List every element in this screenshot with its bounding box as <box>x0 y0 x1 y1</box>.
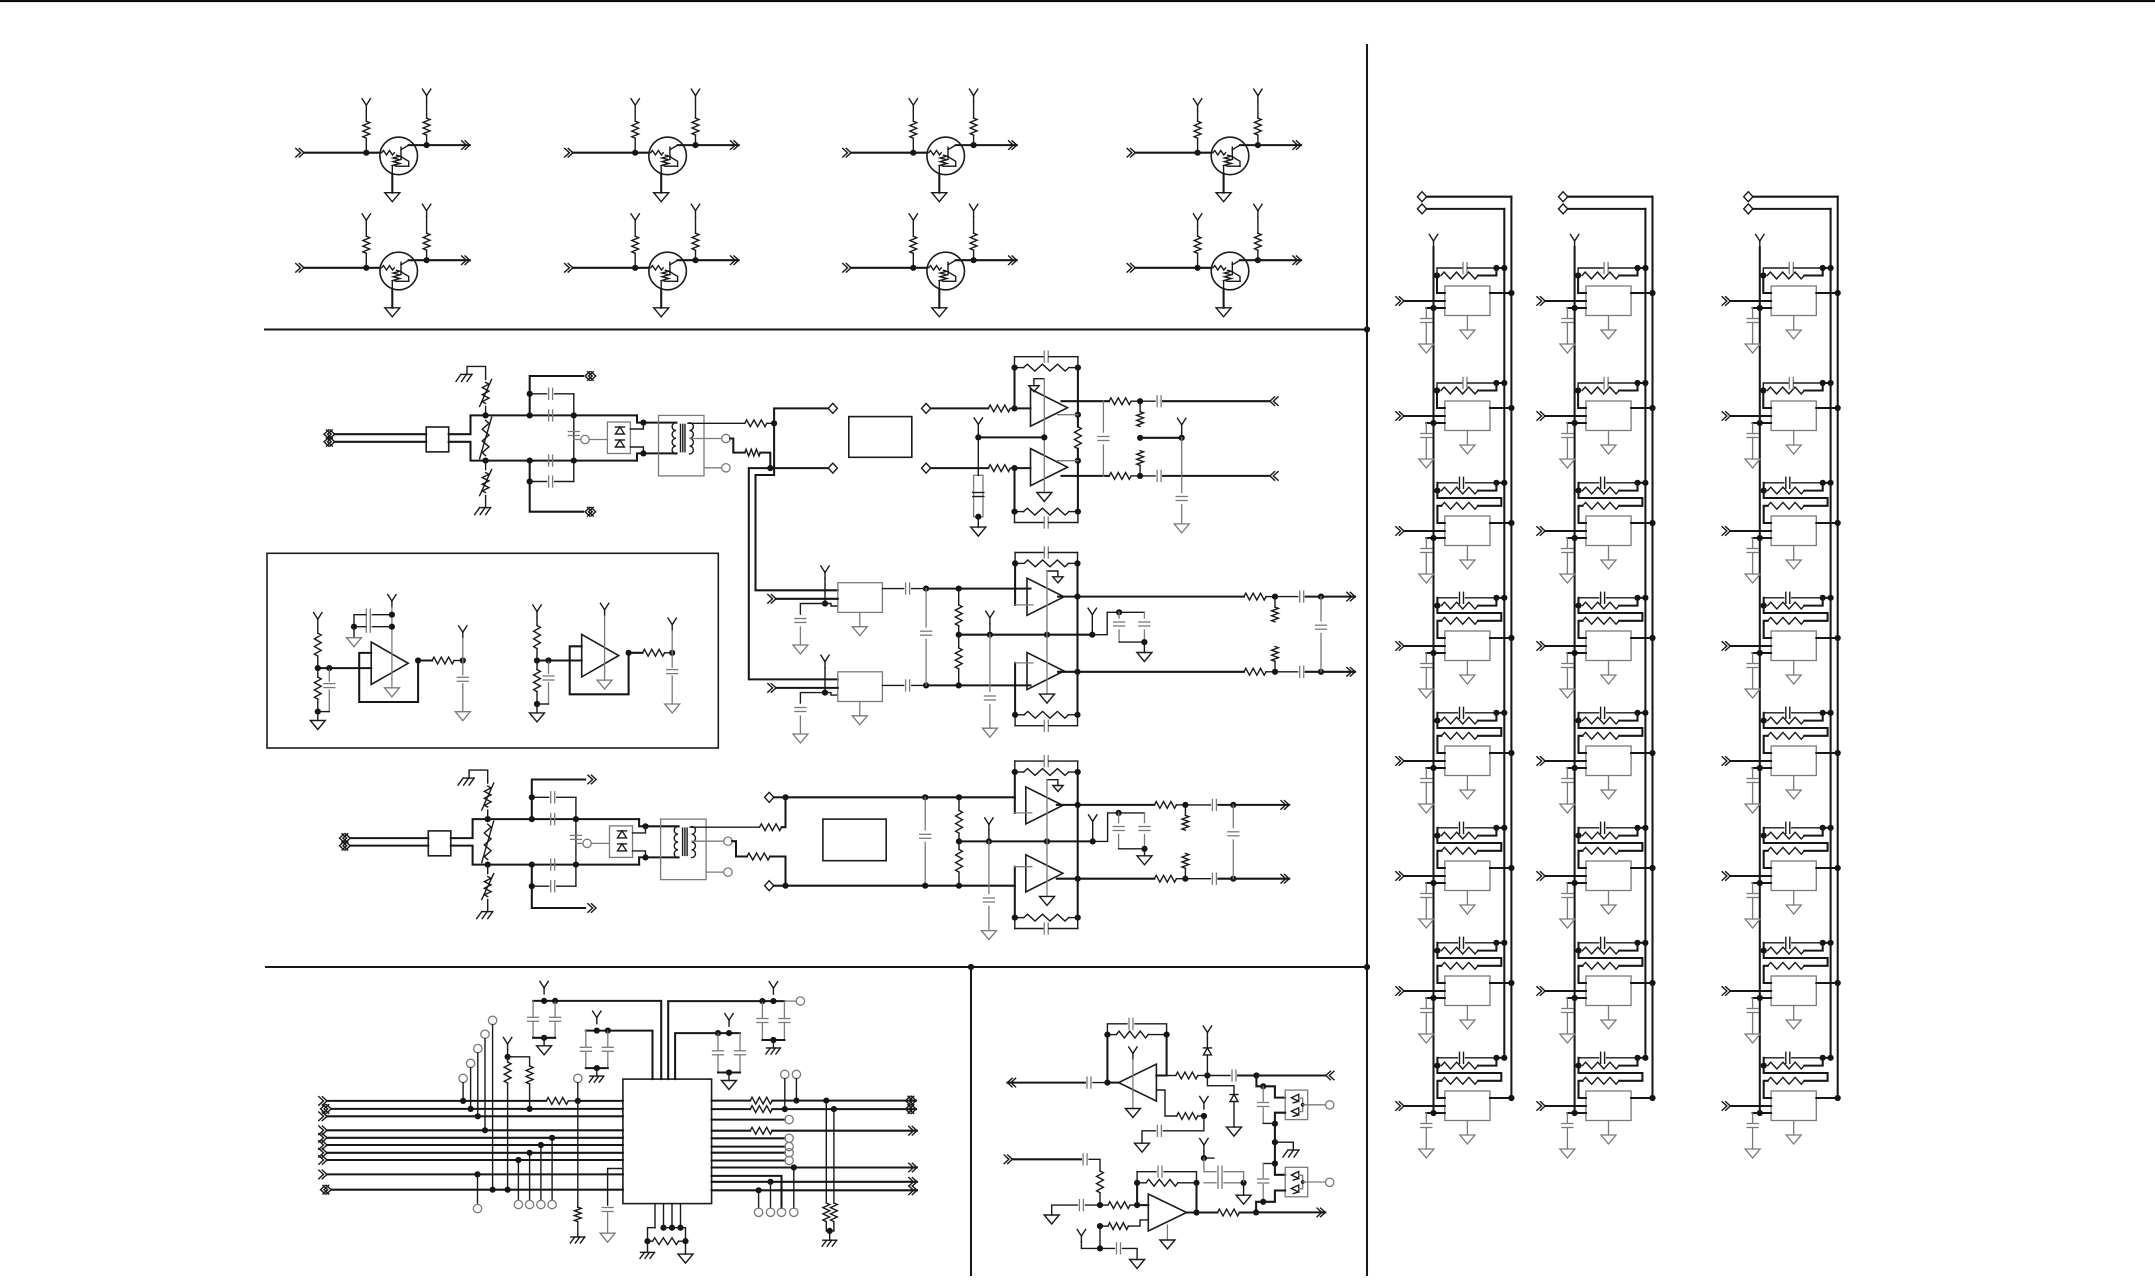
input arrow net L3 <box>322 1112 327 1121</box>
junction fb left U33 <box>1761 488 1767 494</box>
junction output U34 <box>1835 635 1841 641</box>
wire output U24 <box>1631 637 1652 639</box>
ground VD4 <box>766 1047 780 1049</box>
junction b3 capnet <box>1090 838 1096 844</box>
diamond b1 in2 A <box>828 463 837 473</box>
wire fb left U38 <box>1763 1058 1765 1066</box>
input arrow net L6 <box>322 1141 327 1150</box>
junction REF2 outR <box>669 650 675 656</box>
op-amp B3.2 <box>1026 855 1063 892</box>
terminal circle top 3 <box>474 1044 482 1052</box>
wire fb to pin U28 <box>1579 1081 1586 1098</box>
resistor feedback2 U18 <box>1441 1077 1478 1084</box>
wire opto gnd <box>1275 1142 1293 1150</box>
wire box gnd U21 <box>1608 316 1610 331</box>
capacitor opto2 <box>1262 1164 1264 1178</box>
ground cap U32 <box>1745 459 1760 468</box>
junction railA T2 <box>529 816 535 822</box>
wire fb-top left B2 <box>1014 563 1016 605</box>
wire out arrow1 B1 <box>1163 400 1270 402</box>
capacitor b3 inter-out <box>1232 805 1234 828</box>
input arrow U11 <box>1399 297 1404 306</box>
resistor OPB noninv <box>1108 1223 1128 1230</box>
wire feedback U12 <box>1437 391 1445 409</box>
resistor sec top T1 <box>745 420 767 427</box>
wire collector Q5 <box>409 259 427 261</box>
wire box gnd U22 <box>1608 431 1610 446</box>
junction fb bus U15 <box>1501 710 1507 716</box>
wire input Q6 <box>573 267 649 269</box>
junction fb-bot r B2 <box>1074 712 1080 718</box>
wire b3 cn join <box>1119 848 1145 850</box>
wire fb loop U14 <box>1437 606 1501 621</box>
capacitor b2 cn2 <box>1143 612 1145 618</box>
terminal circle sec1 T2 <box>692 840 724 842</box>
junction b3 div <box>956 838 962 844</box>
junction R1b <box>823 1098 829 1104</box>
ground Q3 <box>932 193 947 202</box>
driver U13 <box>1445 516 1490 546</box>
out arrow OPA <box>1007 1078 1012 1087</box>
ground opto chassis <box>1288 1149 1299 1151</box>
capacitor OPA fb <box>1107 1024 1127 1035</box>
junction OPA fb l <box>1104 1032 1110 1038</box>
junction output U13 <box>1508 520 1514 526</box>
wire diamond top T2 <box>774 796 786 798</box>
driver U16 <box>1445 861 1490 891</box>
junction fb cap U38 <box>1820 1055 1826 1061</box>
wire feedback join U12 <box>1478 383 1504 391</box>
wire drop top 3 <box>477 1053 479 1117</box>
ground b2 cap2 <box>793 734 808 743</box>
ground cap U35 <box>1745 804 1760 813</box>
wire drop bottom 4 <box>551 1138 553 1201</box>
resistor feedback1 U38 <box>1768 1062 1805 1069</box>
junction pullup A <box>505 1187 511 1193</box>
junction base Q3 <box>910 150 916 156</box>
wire branch bottom T1 <box>530 461 583 512</box>
output arrow Q5 <box>465 256 470 265</box>
resistor feedback1 U15 <box>1441 717 1478 724</box>
junction output U35 <box>1835 750 1841 756</box>
wire drop bottom 2 <box>529 1153 531 1201</box>
wire net L1 <box>327 1100 546 1102</box>
zener OPA up <box>1206 1055 1208 1076</box>
junction outA1 B2 <box>1272 594 1278 600</box>
ground cap U36 <box>1745 919 1760 928</box>
wire R10 <box>712 1176 782 1208</box>
ground cap U25 <box>1560 804 1575 813</box>
chassis ground bottom T1 <box>480 507 491 509</box>
wire lower pin U18 <box>1426 1112 1445 1114</box>
wire fb loop U24 <box>1579 606 1643 621</box>
wire fb to pin U13 <box>1437 506 1444 523</box>
capacitor feedback U37 <box>1764 942 1784 944</box>
junction OPA right <box>1253 1072 1259 1078</box>
feedback loop REF1 <box>359 653 418 702</box>
ground L1 earth <box>571 1236 585 1238</box>
junction IC gnd b <box>682 1238 688 1244</box>
varistor mid T2 <box>484 824 491 860</box>
ground Q7 <box>932 308 947 317</box>
wire R11 <box>712 1181 917 1183</box>
wire diamond bottom T2 <box>774 885 786 887</box>
wire emitter Q1 <box>391 175 393 193</box>
wire out arrow2 B2 <box>1306 671 1355 673</box>
resistor feedback2 U33 <box>1768 502 1805 509</box>
capacitor b3 vref <box>988 841 990 893</box>
ground box U24 <box>1601 675 1616 684</box>
wire b2 to op1 <box>926 588 1030 590</box>
junction VD3 a <box>726 1030 732 1036</box>
transformer T2 <box>661 819 707 880</box>
capacitor feedback U18 <box>1437 1057 1457 1059</box>
junction IC gnd a <box>644 1238 650 1244</box>
capacitor B T1 <box>548 455 550 466</box>
wire box gnd U15 <box>1466 776 1468 791</box>
resistor L1 pulldown <box>577 1101 579 1207</box>
feedback OPA left <box>1106 1035 1108 1083</box>
resistor mid B1 <box>1075 427 1082 449</box>
wire output U35 <box>1816 752 1837 754</box>
capacitor feedback U33 <box>1764 482 1784 484</box>
wire out rail1 B2 <box>1078 596 1245 598</box>
ground dac filter <box>600 1233 615 1242</box>
junction fb cap U24 <box>1634 595 1640 601</box>
input arrow U28 <box>1540 1102 1545 1111</box>
wire fb r1 U17 <box>1478 943 1496 951</box>
resistor sec top T2 <box>760 824 782 831</box>
wire lower pin U36 <box>1753 882 1772 884</box>
wire cap1 B1 <box>1140 400 1155 402</box>
wire lower pin U25 <box>1567 767 1586 769</box>
resistor feedback1 U27 <box>1583 947 1620 954</box>
wire fb cap join U25 <box>1638 712 1646 714</box>
capacitor b3 cn1 <box>1118 813 1120 823</box>
junction bus-left U27 <box>1572 995 1578 1001</box>
wire REF2 to opamp <box>537 659 582 661</box>
wire pulldown Ra <box>825 1101 827 1203</box>
diamond b1 in1 A <box>828 403 837 413</box>
diamond top T2 <box>765 792 774 802</box>
ground box U27 <box>1601 1020 1616 1029</box>
wire fb loop U28 <box>1579 1066 1643 1081</box>
junction vtop T2 <box>485 816 491 822</box>
resistor REF1 div bottom <box>317 668 319 677</box>
input arrow U33 <box>1726 527 1731 536</box>
wire out rail1 B1 <box>1078 400 1109 402</box>
wire fb r1 U24 <box>1619 598 1637 606</box>
wire collector Q2 <box>678 144 696 146</box>
ground b2 cap1 <box>793 645 808 654</box>
power rail B2 <box>1046 571 1048 694</box>
wire input pair T1 <box>335 433 426 435</box>
capacitor feedback U25 <box>1579 712 1599 714</box>
wire output Q8 <box>1258 259 1301 261</box>
capacitor U11 <box>1425 308 1427 318</box>
wire output Q1 <box>427 144 470 146</box>
wire fb cap join U13 <box>1496 482 1504 484</box>
wire fb left U18 <box>1436 1058 1438 1066</box>
supply arrow b1 mid <box>977 424 979 430</box>
capacitor VD1 1 <box>532 1001 534 1017</box>
wire OPB out <box>1187 1211 1218 1213</box>
capacitor REF1 pwr1 <box>372 614 392 616</box>
capacitor OPA series <box>1207 1075 1230 1077</box>
supply arrow base Q5 <box>365 220 367 226</box>
resistor feedback1 U34 <box>1768 602 1805 609</box>
wire VD1 gnd <box>543 1038 545 1046</box>
driver U26 <box>1586 861 1631 891</box>
rail A T2 <box>488 818 639 820</box>
junction R12 <box>756 1187 762 1193</box>
junction output U36 <box>1835 865 1841 871</box>
wire fb left U25 <box>1577 713 1579 721</box>
capacitor U33 <box>1752 538 1754 548</box>
driver U24 <box>1586 631 1631 661</box>
supply arrow base Q2 <box>634 105 636 111</box>
junction feedback U22 <box>1575 387 1581 393</box>
wire input U36 <box>1730 875 1771 877</box>
output arrow Q8 <box>1296 256 1301 265</box>
wire b2 in2 <box>776 687 838 689</box>
wire VD2 to IC <box>609 1031 653 1080</box>
wire REF1 to opamp <box>318 667 371 669</box>
capacitor B2 T2 <box>532 885 549 887</box>
wire R1 <box>712 1100 751 1102</box>
capacitor b2 box1 <box>905 583 907 594</box>
junction bus-left U33 <box>1757 535 1763 541</box>
junction output U24 <box>1649 635 1655 641</box>
wire fb left U16 <box>1436 828 1438 836</box>
junction tvs top T2 <box>642 823 648 829</box>
supply arrow VD4 <box>772 988 774 994</box>
wire output U18 <box>1490 1097 1511 1099</box>
wire choke out T2 <box>451 819 488 838</box>
wire VD3 to IC <box>675 1033 717 1079</box>
wire feedback U22 <box>1578 391 1586 409</box>
ground cap U14 <box>1419 689 1434 698</box>
input arrow net L7 <box>322 1149 327 1158</box>
junction pulldown <box>827 1228 833 1234</box>
supply arrow REF2 pwr <box>604 610 606 616</box>
resistor feedback U22 <box>1582 387 1619 394</box>
supply arrow collector Q5 <box>426 211 428 217</box>
capacitor dac filter <box>602 1207 613 1209</box>
junction midA T2 <box>573 816 579 822</box>
capacitor out1 B2 <box>1299 591 1301 602</box>
junction b1 in2 <box>1011 465 1017 471</box>
capacitor mid T2 <box>570 834 581 836</box>
resistor feedback1 U36 <box>1768 832 1805 839</box>
wire lower pin U11 <box>1426 307 1445 309</box>
wire fb left U23 <box>1577 483 1579 491</box>
op-amp B1.1 <box>1031 389 1068 426</box>
junction bus-left U17 <box>1430 995 1436 1001</box>
ground cap U37 <box>1745 1034 1760 1043</box>
wire input U13 <box>1404 530 1445 532</box>
resistor base pull-up Q5 <box>365 253 367 267</box>
junction fb left U38 <box>1761 1063 1767 1069</box>
wire fb to pin U37 <box>1764 966 1771 983</box>
diamond b1 in1 B <box>922 403 931 413</box>
ground box U13 <box>1460 560 1475 569</box>
wire fb r1 U27 <box>1619 943 1637 951</box>
ground box U25 <box>1601 790 1616 799</box>
input arrow U14 <box>1399 642 1404 651</box>
resistor feedback1 U13 <box>1441 487 1478 494</box>
driver U18 <box>1445 1091 1490 1121</box>
ground flag B3 <box>1047 780 1058 786</box>
input arrow net L9 <box>322 1170 327 1179</box>
out arrow1 B1 <box>1270 397 1275 406</box>
junction VD1 j <box>541 1035 547 1041</box>
rail fb right B1 <box>1077 368 1079 427</box>
capacitor U31 <box>1752 308 1754 318</box>
junction output U28 <box>1649 1095 1655 1101</box>
wire lower pin U13 <box>1426 537 1445 539</box>
wire output U34 <box>1816 637 1837 639</box>
junction R2b <box>831 1106 837 1112</box>
wire b1 op2 in <box>1015 467 1031 469</box>
wire input Q1 <box>304 152 380 154</box>
junction OPB fb l <box>1134 1180 1140 1186</box>
wire tvs bottom T2 <box>633 851 646 858</box>
wire L1 to IC <box>578 1100 623 1102</box>
wire fb r1 U16 <box>1478 828 1496 836</box>
driver U15 <box>1445 746 1490 776</box>
resistor OPB fb <box>1146 1179 1178 1186</box>
junction fb left U35 <box>1761 718 1767 724</box>
supply arrow col1 <box>1433 241 1435 247</box>
supply arrow b2 vref <box>989 618 991 624</box>
junction fb-bot r B1 <box>1075 509 1081 515</box>
wire fb r1 U26 <box>1619 828 1637 836</box>
wire net L6 <box>327 1144 623 1146</box>
capacitor U32 <box>1752 423 1754 433</box>
resistor base pull-up Q1 <box>365 138 367 153</box>
supply arrow collector Q4 <box>1257 96 1259 102</box>
junction bus-left U15 <box>1430 765 1436 771</box>
resistor feedback1 U14 <box>1441 602 1478 609</box>
ground box U38 <box>1786 1135 1801 1144</box>
wire VD3 join <box>718 1071 740 1073</box>
capacitor U21 <box>1566 308 1568 318</box>
wire lower pin U34 <box>1753 652 1772 654</box>
junction fb bus U26 <box>1642 825 1648 831</box>
resistor feedback1 U25 <box>1583 717 1620 724</box>
driver U35 <box>1771 746 1816 776</box>
wire fb r1 U15 <box>1478 713 1496 721</box>
junction VD2 j <box>594 1065 600 1071</box>
terminal circle VD4 <box>785 1000 797 1002</box>
ground b1 filter <box>971 527 986 536</box>
junction fb bus U32 <box>1828 380 1834 386</box>
terminal circle R3 <box>785 1115 793 1123</box>
junction R9 <box>791 1164 797 1170</box>
junction fb left U15 <box>1434 718 1440 724</box>
wire input U12 <box>1404 415 1445 417</box>
junction pullup B <box>527 1106 533 1112</box>
wire input U17 <box>1404 990 1445 992</box>
junction fb left U23 <box>1575 488 1581 494</box>
wire VD2 gnd <box>596 1068 598 1076</box>
wire fb loop U15 <box>1437 721 1501 736</box>
op-amp REF2 <box>582 634 619 677</box>
terminal circle R above1 <box>781 1070 789 1078</box>
out arrow1 B2 <box>1350 592 1355 601</box>
input arrow U32 <box>1726 412 1731 421</box>
wire box gnd U34 <box>1793 661 1795 676</box>
varistor mid T1 <box>482 420 489 455</box>
wire out arrow1 B3 <box>1218 804 1289 806</box>
resistor feedback U21 <box>1582 272 1619 279</box>
resistor out2 B2 <box>1244 668 1266 675</box>
capacitor U13 <box>1425 538 1427 548</box>
rail VD2 <box>586 1030 608 1032</box>
vertical section divider <box>1366 45 1368 1276</box>
wire fb left U13 <box>1436 483 1438 491</box>
resistor feedback2 U37 <box>1768 962 1805 969</box>
optocoupler OC2 <box>1285 1167 1308 1197</box>
junction b2 box2 <box>822 690 828 696</box>
supply arrow collector Q8 <box>1257 211 1259 217</box>
terminal circle top 4 <box>481 1030 489 1038</box>
junction fb cap U13 <box>1493 480 1499 486</box>
junction vbot T2 <box>485 862 491 868</box>
junction divider-left <box>968 964 974 970</box>
resistor feedback2 U24 <box>1583 617 1620 624</box>
power rail REF2 <box>604 616 606 672</box>
junction drop top 3 <box>475 1113 481 1119</box>
junction bus-left U35 <box>1757 765 1763 771</box>
rail B T2 <box>488 864 639 866</box>
ground OPB d <box>1236 1195 1251 1204</box>
wire OPA noninv <box>1156 1090 1176 1116</box>
wire emitter Q7 <box>938 290 940 308</box>
wire lower pin U28 <box>1567 1112 1586 1114</box>
junction fb cap U34 <box>1820 595 1826 601</box>
wire fb left U27 <box>1577 943 1579 951</box>
capacitor OPB vref2 <box>1100 1247 1115 1249</box>
branch arrow top T1 <box>585 372 590 381</box>
wire fb r1 U14 <box>1478 598 1496 606</box>
wire fb cap join U33 <box>1823 482 1831 484</box>
wire input U32 <box>1730 415 1771 417</box>
junction capbranch bottom T1 <box>527 478 533 484</box>
junction outB1 B2 <box>1318 594 1324 600</box>
junction output U27 <box>1649 980 1655 986</box>
junction vbot T1 <box>483 458 489 464</box>
wire fb cap join U36 <box>1823 827 1831 829</box>
wire VD1 join <box>533 1037 555 1039</box>
resistor feedback2 U28 <box>1583 1077 1620 1084</box>
supply arrow col3 <box>1759 241 1761 247</box>
wire out2 B2 <box>1058 671 1078 673</box>
junction output U26 <box>1649 865 1655 871</box>
wire tvs top T1 <box>630 423 643 429</box>
input arrow U27 <box>1540 987 1545 996</box>
capacitor b2 vref <box>989 635 991 692</box>
wire b1 op1 in <box>1015 407 1031 409</box>
ground REF2 opamp <box>604 672 606 681</box>
ground cap U28 <box>1560 1149 1575 1158</box>
wire R4 <box>712 1130 751 1132</box>
capacitor feedback U31 <box>1763 268 1789 276</box>
resistor OPA noninv <box>1177 1113 1198 1120</box>
connector diamond col1 B <box>1417 204 1426 214</box>
wire input Q8 <box>1135 267 1211 269</box>
